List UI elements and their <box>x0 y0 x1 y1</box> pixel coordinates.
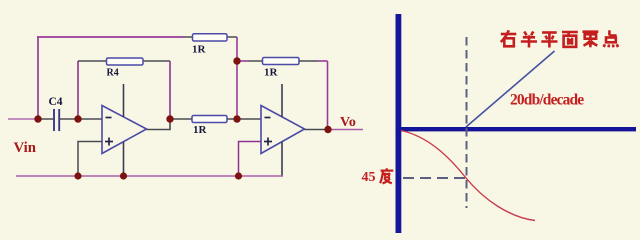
glyph mian (plane) <box>562 32 578 47</box>
glyph dian (point) <box>604 30 618 47</box>
wire U1 non-inverting jog <box>78 142 102 177</box>
resistor 1R (top) <box>193 34 228 41</box>
svg-text:1R: 1R <box>264 67 279 79</box>
op-amp U1 <box>102 106 147 154</box>
wire U2 non-inverting jog <box>239 142 262 177</box>
node I bottom rail dot 3 <box>235 172 242 179</box>
U1 inverting input marker <box>106 117 112 119</box>
wire R4 right lead <box>143 60 170 62</box>
capacitor C4 <box>54 109 59 131</box>
glyph du (degree) small <box>380 168 393 183</box>
wire U2 output to node F <box>305 129 329 131</box>
U2 V+ power pin stub <box>281 84 283 117</box>
node B junction dot <box>74 115 81 122</box>
glyph ban (half) <box>521 32 537 48</box>
wire B to op-amp1 inverting input <box>78 118 102 120</box>
wire fb2 1R left lead <box>248 60 263 62</box>
U2 V- power pin <box>281 142 283 176</box>
resistor R4 <box>107 58 144 65</box>
dashed vertical line at zero frequency <box>466 37 468 208</box>
resistor 1R (middle) <box>192 116 227 123</box>
svg-text:Vin: Vin <box>14 140 36 156</box>
wire input row A to C4 <box>38 118 54 120</box>
node E op-amp1 output dot <box>166 115 173 122</box>
dashed horizontal line 45 degree level <box>403 177 466 179</box>
wire fb2 1R right lead <box>299 60 318 62</box>
U1 non-inverting input marker <box>105 138 113 146</box>
wire C4 to node B <box>59 118 78 120</box>
U1 V- power pin <box>123 142 125 176</box>
node C middle row dot <box>233 115 240 122</box>
U2 non-inverting input marker <box>264 138 272 146</box>
wire U1 output to node E <box>147 119 171 130</box>
U1 V+ power pin stub <box>123 84 125 117</box>
wire Vin input stub <box>8 118 38 120</box>
wire node B up to R4 rail <box>77 61 79 119</box>
wire node A up to top rail <box>37 37 39 119</box>
y-axis (plot) <box>396 14 402 233</box>
wire node D to feedback resistor 2 <box>237 60 248 62</box>
svg-text:R4: R4 <box>107 68 119 79</box>
svg-text:45: 45 <box>362 170 376 185</box>
wire Vo output <box>328 129 363 131</box>
node F op-amp2 output dot <box>324 126 331 133</box>
wire top rail <box>37 36 184 38</box>
wire fb2 to corner <box>318 60 328 62</box>
wire feedback 2 down to output node F <box>327 61 329 129</box>
wire node C to op-amp2 inverting input <box>237 118 261 120</box>
node H bottom rail dot 2 <box>120 172 127 179</box>
gain asymptote line 20db/decade <box>466 51 555 127</box>
label right-half-plane zero (CJK) <box>501 30 618 47</box>
svg-text:Vo: Vo <box>340 115 356 130</box>
glyph ping (flat) <box>541 33 557 48</box>
phase curve <box>401 131 535 221</box>
wire node D down to node C <box>236 61 238 119</box>
resistor 1R (feedback 2) <box>263 58 300 65</box>
op-amp U2 <box>261 106 305 154</box>
svg-text:1R: 1R <box>193 124 208 136</box>
glyph you (right) <box>501 30 517 46</box>
wire R4 rail down to op-amp1 output node <box>169 61 171 119</box>
node G bottom rail dot 1 <box>74 172 81 179</box>
wire top 1R right lead <box>227 36 237 38</box>
node A junction dot <box>34 115 41 122</box>
wire bottom rail <box>16 175 283 177</box>
wire top rail down to node D <box>236 37 238 61</box>
node D feedback dot <box>233 57 240 64</box>
U2 inverting input marker <box>265 117 271 119</box>
svg-text:20db/decade: 20db/decade <box>510 92 584 109</box>
wire node E to middle 1R <box>170 118 237 120</box>
wire R4 left lead <box>78 60 107 62</box>
x-axis (plot) <box>396 127 636 131</box>
glyph ling (zero) <box>583 32 599 48</box>
svg-text:C4: C4 <box>49 96 63 108</box>
svg-text:1R: 1R <box>192 44 207 56</box>
wire top 1R left lead <box>184 36 193 38</box>
